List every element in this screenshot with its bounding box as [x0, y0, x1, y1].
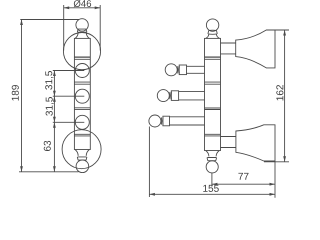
spindle 1 waist [178, 66, 180, 74]
dim 77 line [212, 183, 275, 185]
chain dim arrows [53, 71, 56, 172]
dim 162 line [284, 30, 286, 162]
spindle 3 collar ring [163, 116, 170, 126]
dim 155 extension right (bell mouth face extended) [274, 161, 276, 198]
dim 155 line [149, 193, 275, 195]
station circle 3 [75, 115, 89, 129]
station circle 1 [75, 64, 89, 78]
dim 189 extension top [20, 19, 79, 21]
neck (side top) [206, 34, 219, 38]
spindle 2 stem [179, 91, 205, 100]
side band 3 [205, 108, 221, 110]
dim 162 extension top [267, 29, 289, 31]
top neck (front) [75, 32, 89, 38]
dim 63 text [44, 141, 51, 151]
top escutcheon circle [63, 33, 100, 70]
body column (side) [205, 38, 221, 150]
chain dim extension lines [53, 71, 85, 123]
spindle 3 ball [149, 115, 161, 127]
chain dim line [53, 71, 55, 172]
ball finial (side top) [206, 19, 218, 31]
collar (side top) [208, 30, 217, 34]
dim 189 line [21, 20, 23, 172]
dim 77 text [238, 173, 248, 180]
separator band 1 [74, 56, 90, 58]
dim 155 extension left [148, 127, 150, 198]
dim Ø46 text [74, 0, 91, 7]
spindle 2 ball [157, 90, 169, 102]
separator band 3 [74, 108, 90, 110]
dim 162 text [276, 85, 283, 100]
top ball finial (front) [76, 19, 88, 31]
top bell (escutcheon profile) [236, 30, 275, 68]
bottom escutcheon circle [62, 130, 101, 169]
bottom collar (front) [77, 157, 87, 160]
spindle 2 collar ring [171, 91, 178, 101]
bottom bell stem [221, 137, 236, 148]
side band 2 [205, 82, 221, 84]
top collar (front) [77, 29, 87, 32]
dim 77 extension [211, 173, 213, 187]
dim Ø46 line [64, 7, 100, 9]
bottom ball finial (front) [76, 160, 89, 173]
top bell stem [221, 43, 236, 54]
spindle 2 waist [170, 92, 172, 100]
dim 189 text [12, 85, 19, 100]
dim 31,5 upper text [45, 71, 53, 90]
spindle 1 ball [165, 64, 177, 76]
separator band 4 [74, 134, 90, 136]
body column (front) [74, 38, 90, 149]
dim 31,5 lower text [46, 97, 54, 116]
dim 189 extension bottom [19, 171, 79, 173]
bottom neck (front) [75, 150, 89, 156]
side band 1 [205, 56, 221, 58]
bottom bell (escutcheon profile) [236, 125, 275, 161]
bottom finial neck (side) [206, 151, 219, 157]
side band 4 [205, 134, 221, 136]
dim 162 extension bottom [264, 161, 289, 163]
spindle 3 waist [161, 117, 163, 125]
dim Ø46 extension lines [64, 5, 100, 51]
spindle 1 collar ring [179, 65, 186, 75]
separator band 2 [74, 82, 90, 84]
bottom ball finial (side) [206, 161, 218, 173]
station circle 2 [75, 89, 89, 103]
bottom collar (side) [207, 158, 217, 161]
dim 155 text [203, 185, 219, 192]
spindle 1 stem [187, 66, 205, 73]
spindle 3 stem [170, 117, 205, 125]
